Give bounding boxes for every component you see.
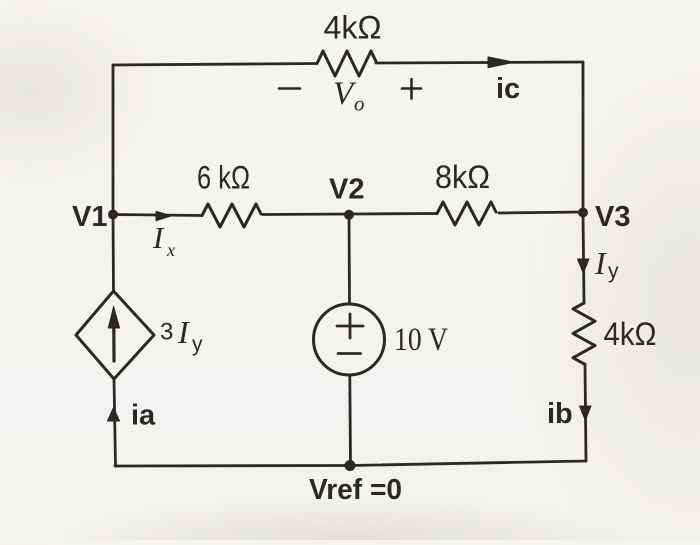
- dependent current source 3Iy (diamond): [76, 291, 154, 379]
- wire top horizontal right of R 4k: [376, 62, 583, 63]
- svg-text:ib: ib: [547, 398, 573, 430]
- plus sign inside source: [337, 314, 363, 338]
- svg-text:V2: V2: [329, 174, 364, 206]
- svg-text:8kΩ: 8kΩ: [435, 159, 490, 195]
- svg-text:4kΩ: 4kΩ: [604, 316, 657, 352]
- arrow ib: [580, 406, 592, 421]
- wire voltage source to bottom node: [348, 375, 352, 466]
- arrow Iy: [578, 259, 590, 273]
- svg-text:y: y: [608, 260, 619, 283]
- arrow Ix: [156, 211, 172, 220]
- svg-text:x: x: [166, 240, 175, 260]
- svg-text:4kΩ: 4kΩ: [324, 10, 382, 46]
- svg-text:ic: ic: [496, 73, 520, 105]
- label plus (Vo): [402, 79, 421, 99]
- wire bottom: [115, 461, 586, 466]
- wire V3 down to R 4k right: [583, 213, 584, 304]
- wire R 4k right to bottom: [585, 364, 586, 461]
- wire top-left vertical: [112, 65, 115, 214]
- resistor R 6k: [202, 204, 261, 227]
- arrow ic on top wire: [488, 57, 514, 68]
- resistor R 4k (right, vertical): [573, 303, 595, 364]
- svg-text:ia: ia: [131, 400, 156, 432]
- wire middle left of R 6k: [113, 215, 202, 216]
- wire top horizontal left of R 4k: [113, 64, 317, 66]
- voltage source 10V (circle): [314, 304, 385, 375]
- wire middle between V2 and R 8k: [349, 212, 437, 215]
- arrow ia: [108, 408, 120, 422]
- node V3: [578, 208, 588, 218]
- svg-text:y: y: [192, 333, 203, 356]
- svg-text:V3: V3: [595, 201, 630, 233]
- arrow inside diamond: [112, 326, 115, 361]
- resistor R 8k: [437, 202, 496, 225]
- svg-text:o: o: [354, 92, 365, 116]
- svg-text:I: I: [594, 245, 607, 281]
- svg-text:I: I: [177, 314, 190, 350]
- svg-text:6 kΩ: 6 kΩ: [197, 160, 250, 196]
- wire V1 to dependent source: [112, 215, 115, 292]
- wire V2 to voltage source: [348, 215, 351, 304]
- resistor R 4k (top): [317, 51, 376, 76]
- label minus (Vo): [279, 87, 300, 90]
- node Vref: [345, 460, 356, 471]
- wire right vertical upper: [582, 62, 585, 212]
- wire middle between R 6k and V2: [263, 213, 349, 216]
- wire middle right of R 8k: [499, 212, 583, 213]
- svg-text:V1: V1: [72, 201, 107, 233]
- svg-text:I: I: [152, 220, 165, 255]
- minus sign inside source: [338, 352, 361, 355]
- wire dependent source to bottom: [114, 379, 116, 466]
- svg-text:10 V: 10 V: [394, 322, 448, 358]
- node V2: [344, 210, 354, 220]
- node V1: [108, 210, 118, 220]
- svg-text:3: 3: [160, 319, 173, 346]
- svg-text:Vref =0: Vref =0: [309, 474, 402, 506]
